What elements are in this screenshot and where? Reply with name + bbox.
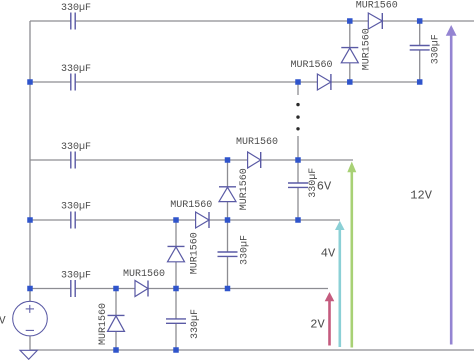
svg-text:330µF: 330µF xyxy=(431,34,442,64)
capacitor C8 330uF vertical x298 xyxy=(288,183,308,187)
capacitor C3 330uF rail3 xyxy=(71,152,75,169)
svg-text:330µF: 330µF xyxy=(61,142,91,153)
wire ground rail xyxy=(30,349,474,351)
node bus-rail2 xyxy=(27,79,33,85)
node rail5 x116 xyxy=(113,286,119,292)
svg-text:330µF: 330µF xyxy=(240,235,251,265)
svg-text:V: V xyxy=(0,316,6,328)
node rail2 x420 xyxy=(417,79,423,85)
diode D7 MUR1560 vertical x176 xyxy=(168,246,185,261)
wire rail5 segments xyxy=(30,288,328,290)
capacitor C7 330uF vertical x227.5 xyxy=(218,252,238,256)
wire rail2 segments xyxy=(30,81,420,83)
diode D9 MUR1560 vertical x350 xyxy=(341,48,358,63)
node ground x116 xyxy=(113,347,119,353)
svg-text:330µF: 330µF xyxy=(61,3,91,14)
12V output arrow xyxy=(446,25,457,345)
capacitor C1 330uF rail5 xyxy=(71,280,75,297)
wire column x350 diode D9 xyxy=(349,21,351,82)
ellipsis dots node x298 xyxy=(296,103,299,131)
6V output arrow xyxy=(347,162,356,348)
node rail3 x298 xyxy=(295,157,301,163)
node rail1 x350 xyxy=(347,18,353,24)
svg-text:MUR1560: MUR1560 xyxy=(98,303,109,345)
ground symbol xyxy=(20,350,37,359)
node rail5 x227 xyxy=(225,286,231,292)
svg-text:330µF: 330µF xyxy=(61,64,91,75)
wire column x298 stubs and cap C8 xyxy=(297,82,299,220)
node rail2 x298 xyxy=(295,79,301,85)
svg-text:6V: 6V xyxy=(317,180,332,194)
svg-text:MUR1560: MUR1560 xyxy=(362,28,373,70)
diode D1 MUR1560 rail5 xyxy=(135,281,148,297)
2V output arrow xyxy=(325,292,335,346)
node rail4 x176 xyxy=(173,217,179,223)
wire column x116 diode D6 xyxy=(115,289,117,351)
svg-text:2V: 2V xyxy=(310,318,325,332)
svg-text:MUR1560: MUR1560 xyxy=(189,232,200,274)
svg-text:MUR1560: MUR1560 xyxy=(170,200,212,211)
diode D6 MUR1560 vertical x116 xyxy=(108,315,125,331)
svg-text:330µF: 330µF xyxy=(61,271,91,282)
diode D3 MUR1560 rail3 xyxy=(248,152,261,168)
wire source stubs xyxy=(29,289,31,351)
node rail1 x420 xyxy=(417,18,423,24)
capacitor C4 330uF rail2 xyxy=(71,74,75,91)
node rail2 x350 xyxy=(347,79,353,85)
wire column x227.5 diode D8 and cap C7 xyxy=(227,160,229,289)
svg-text:330µF: 330µF xyxy=(61,202,91,213)
svg-text:MUR1560: MUR1560 xyxy=(123,269,165,280)
svg-text:12V: 12V xyxy=(410,189,432,203)
capacitor C5 330uF rail1 xyxy=(71,13,75,30)
node bus-rail4 xyxy=(27,217,33,223)
node rail4 x298 xyxy=(295,217,301,223)
diode D2 MUR1560 rail4 xyxy=(196,212,209,228)
svg-text:330µF: 330µF xyxy=(190,309,201,339)
voltage source V1 xyxy=(13,301,48,336)
capacitor C2 330uF rail4 xyxy=(71,212,75,229)
capacitor C9 330uF vertical x419.7 xyxy=(410,46,430,50)
wire rail1 segments xyxy=(30,20,474,22)
node ground x176 xyxy=(173,347,179,353)
node rail4 x227 xyxy=(225,217,231,223)
4V output arrow xyxy=(335,221,345,347)
diode D5 MUR1560 rail1 xyxy=(368,13,382,29)
wire rail4 segments xyxy=(30,219,340,221)
capacitor C6 330uF vertical x176 xyxy=(166,319,186,323)
node rail3 x227 xyxy=(225,157,231,163)
svg-text:MUR1560: MUR1560 xyxy=(239,168,250,210)
svg-text:MUR1560: MUR1560 xyxy=(236,137,278,148)
node rail5 x176 xyxy=(173,286,179,292)
wire rail3 segments xyxy=(30,159,353,161)
node bus-rail5 xyxy=(27,286,33,292)
diode D8 MUR1560 vertical x227.5 xyxy=(219,187,236,202)
diode D4 MUR1560 rail2 xyxy=(317,74,331,90)
wire left bus xyxy=(29,21,31,302)
svg-text:MUR1560: MUR1560 xyxy=(291,60,333,71)
wire column x176 diode D7 and cap C6 xyxy=(175,220,177,350)
svg-text:MUR1560: MUR1560 xyxy=(356,1,398,12)
svg-text:4V: 4V xyxy=(321,247,336,261)
wire column x419.7 cap C9 xyxy=(419,21,421,82)
